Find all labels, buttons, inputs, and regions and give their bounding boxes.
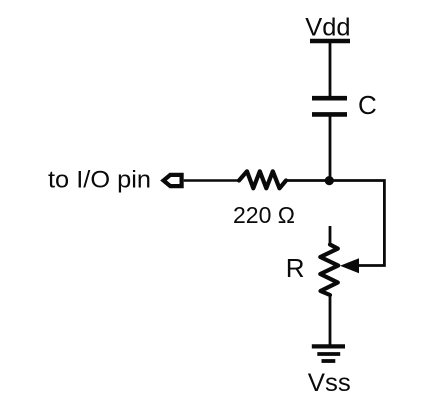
svg-text:to I/O pin: to I/O pin	[48, 167, 151, 194]
svg-text:220 Ω: 220 Ω	[233, 202, 295, 228]
svg-text:Vss: Vss	[308, 369, 351, 397]
svg-text:C: C	[358, 90, 377, 120]
svg-text:R: R	[286, 253, 305, 283]
svg-text:Vdd: Vdd	[305, 14, 350, 42]
